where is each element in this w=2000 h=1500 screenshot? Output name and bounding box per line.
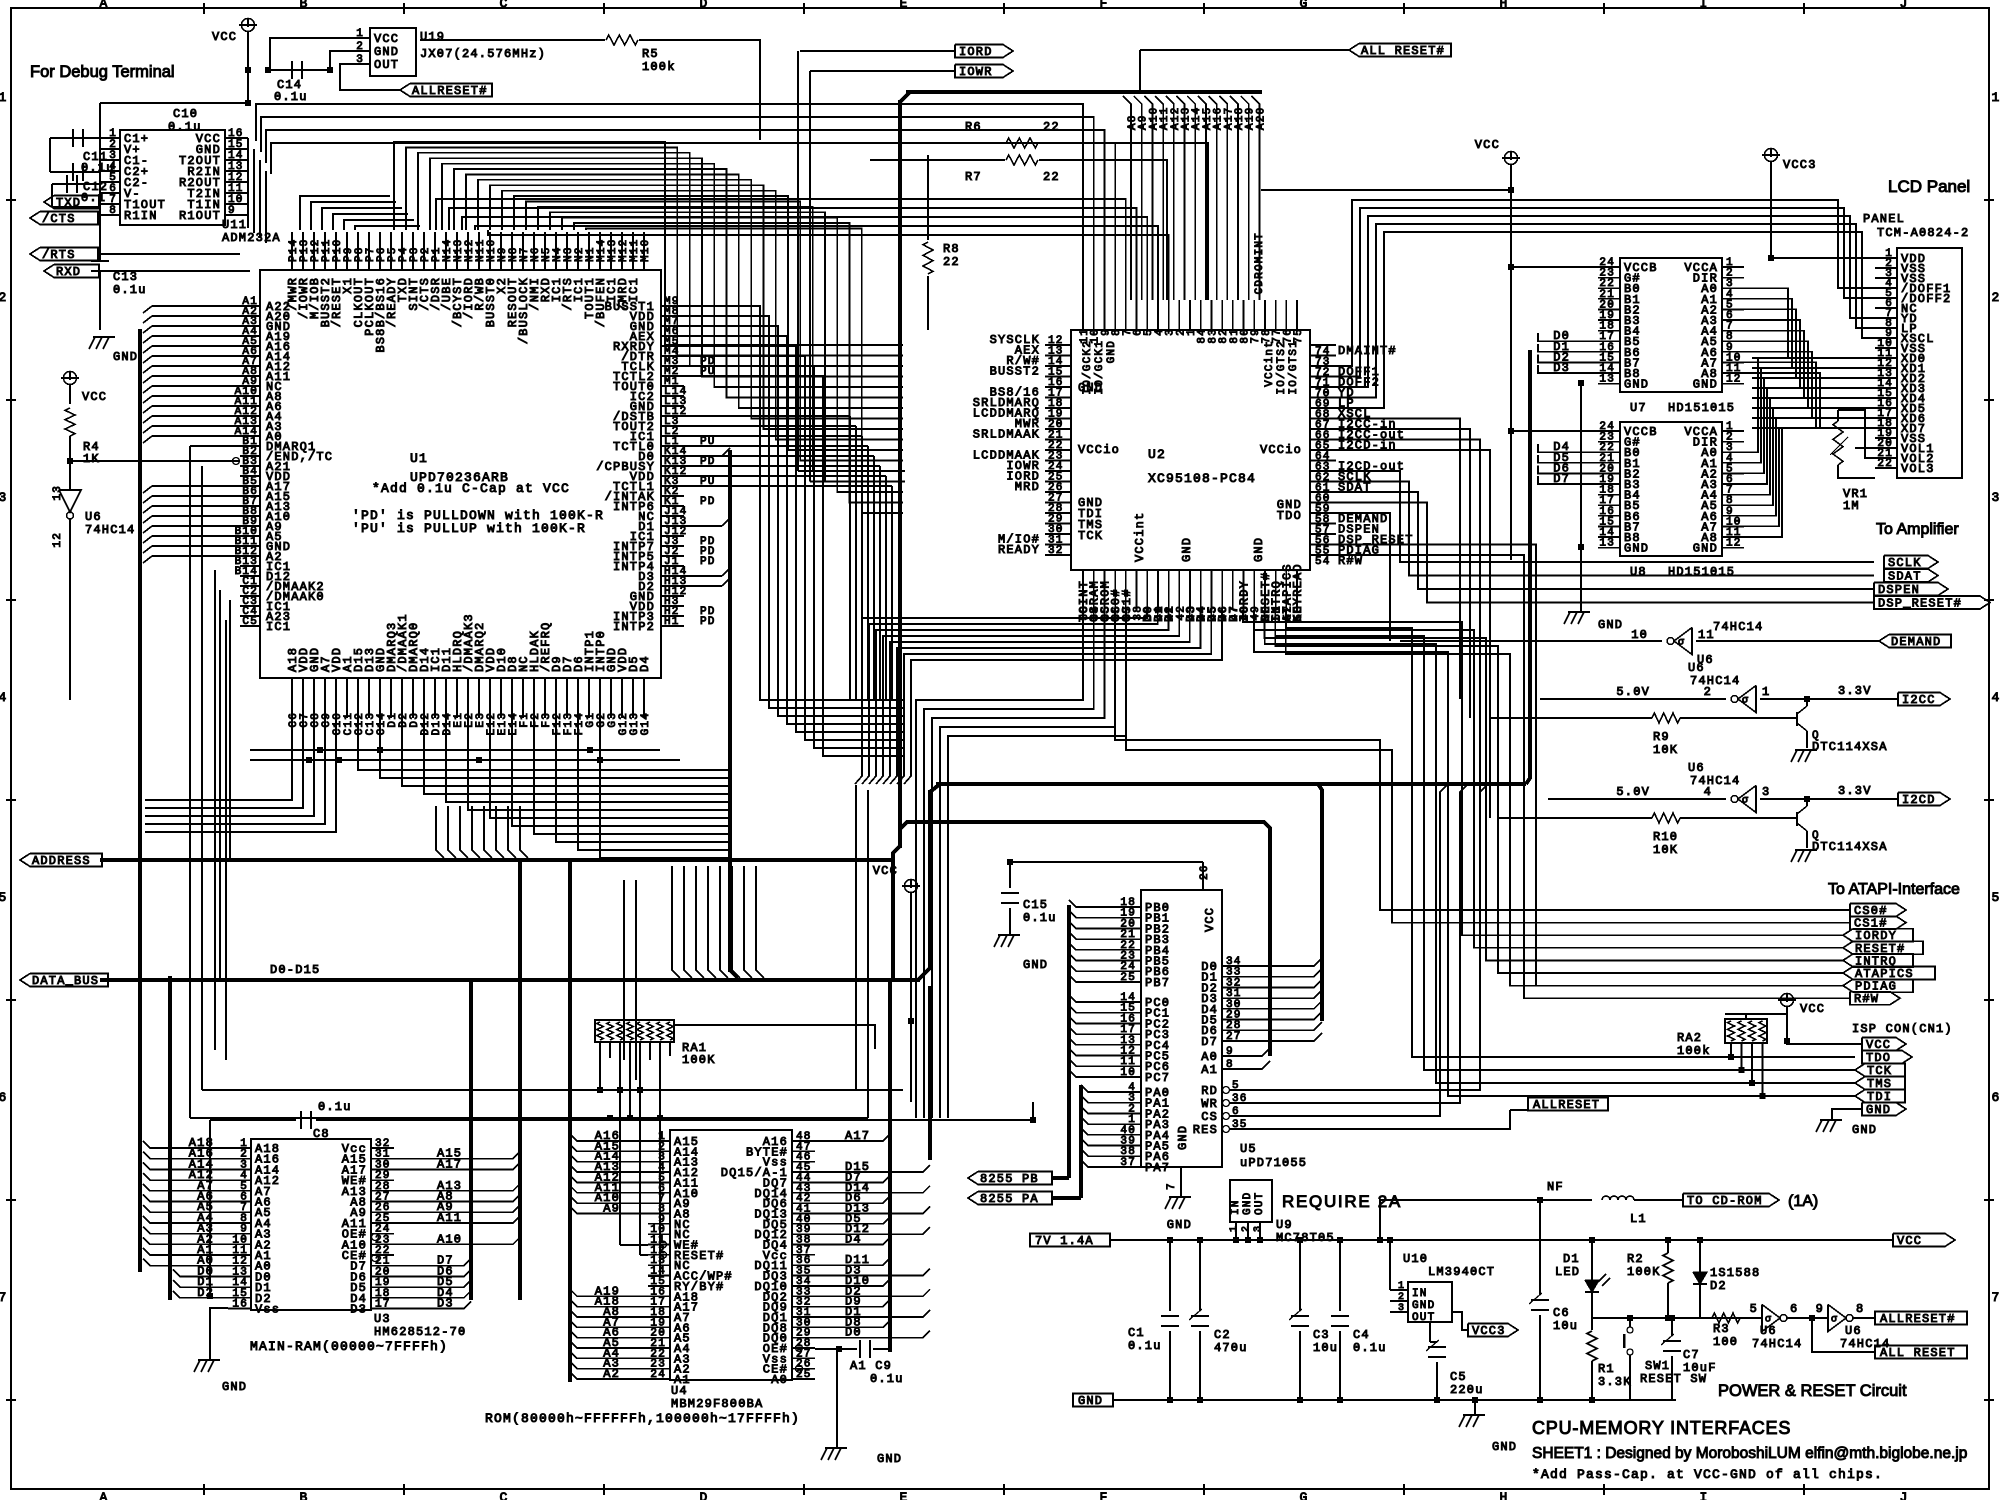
svg-text:PC7: PC7: [1145, 1071, 1170, 1085]
flag DEMAND: [1879, 635, 1951, 648]
inverter U6 74HC14 left: [59, 490, 81, 512]
wire reset node: [1592, 1317, 1700, 1319]
svg-text:C3: C3: [1313, 1328, 1330, 1342]
capacitor C8: [210, 1119, 296, 1121]
power VCC R4: [64, 372, 77, 385]
svg-text:4: 4: [0, 690, 8, 705]
svg-text:C1: C1: [1128, 1326, 1145, 1340]
power VCC U5 area: [905, 880, 918, 893]
svg-text:74HC14: 74HC14: [1690, 674, 1740, 688]
U2 bottom pins: [1082, 570, 1084, 610]
svg-text:1: 1: [1991, 90, 2000, 105]
svg-text:9: 9: [1226, 1046, 1234, 1058]
svg-text:VCC3: VCC3: [1783, 158, 1817, 172]
svg-text:IO/GTS2: IO/GTS2: [1276, 340, 1288, 395]
svg-text:H: H: [1499, 0, 1508, 11]
svg-text:ALL RESET: ALL RESET: [1880, 1346, 1956, 1360]
svg-text:470u: 470u: [1214, 1341, 1248, 1355]
svg-text:TDO: TDO: [1277, 509, 1302, 523]
wire U19 vcc: [270, 38, 348, 70]
svg-text:VCC: VCC: [873, 864, 898, 878]
bus vertical x890 ROM data: [888, 982, 892, 1352]
svg-text:C15: C15: [1023, 898, 1048, 912]
wire ATAPI: [1843, 929, 1913, 942]
svg-text:HD151015: HD151015: [1668, 565, 1735, 579]
svg-text:13: 13: [1599, 374, 1615, 386]
svg-text:2: 2: [1241, 1226, 1252, 1232]
svg-text:C5: C5: [242, 616, 258, 628]
svg-text:2: 2: [1991, 290, 2000, 305]
svg-text:5: 5: [0, 890, 8, 905]
svg-text:3: 3: [1398, 1303, 1404, 1314]
flag RXD: [44, 265, 99, 278]
svg-text:36: 36: [1232, 1093, 1248, 1105]
svg-text:uPD71055: uPD71055: [1240, 1156, 1307, 1170]
svg-text:VCC: VCC: [212, 30, 237, 44]
flag ADDRESS: [20, 854, 102, 867]
bus ADDRESS top horizontal to U2: [906, 90, 1262, 94]
svg-text:U6: U6: [1760, 1324, 1777, 1338]
svg-text:3: 3: [1762, 785, 1770, 799]
svg-text:E: E: [899, 1490, 908, 1500]
svg-text:GND: GND: [1176, 1125, 1190, 1150]
transistor Q DTC114XSA I2CD: [1806, 799, 1808, 806]
svg-text:5: 5: [1232, 1080, 1240, 1092]
svg-text:1: 1: [356, 28, 364, 40]
svg-text:5: 5: [1750, 1302, 1758, 1316]
capacitor C15: [1009, 862, 1011, 888]
svg-text:BUSST2: BUSST2: [990, 365, 1040, 379]
svg-text:VOL3: VOL3: [1901, 462, 1935, 476]
flag ALLRESET#: [400, 84, 492, 97]
svg-text:Vss: Vss: [255, 1303, 280, 1317]
svg-text:DSPEN: DSPEN: [1878, 583, 1920, 597]
svg-text:R1OUT: R1OUT: [179, 209, 221, 223]
flag /RTS: [30, 248, 98, 261]
bus jog x900 to x893: [893, 846, 900, 980]
svg-text:F: F: [1099, 1490, 1108, 1500]
svg-text:32: 32: [1048, 545, 1064, 557]
wire ATAPI: [1850, 916, 1906, 929]
svg-text:C2: C2: [1214, 1328, 1231, 1342]
wire debug to U1: [247, 138, 249, 228]
wire bundle U1 top short: [300, 196, 390, 230]
svg-text:I: I: [1699, 1490, 1708, 1500]
svg-text:σ: σ: [1678, 638, 1684, 649]
capacitor C5 220u: [1429, 1322, 1431, 1342]
svg-text:1K: 1K: [83, 452, 100, 466]
svg-text:REQUIRE 2A: REQUIRE 2A: [1282, 1192, 1402, 1211]
svg-text:8: 8: [109, 205, 117, 217]
svg-text:PD: PD: [700, 556, 716, 568]
svg-text:READY: READY: [998, 543, 1040, 557]
wires RA2 to ISP: [1730, 1043, 1732, 1057]
wire bundle U1/U11 to U2 top pins: [256, 104, 1083, 300]
svg-text:9: 9: [1816, 1302, 1824, 1316]
svg-text:σ: σ: [1742, 696, 1748, 707]
svg-text:22: 22: [1877, 458, 1893, 470]
power VCC3: [1765, 149, 1778, 162]
svg-text:To Amplifier: To Amplifier: [1876, 521, 1959, 538]
svg-text:75: 75: [1293, 328, 1305, 344]
svg-text:SHEET1 : Designed by Moroboshi: SHEET1 : Designed by MoroboshiLUM elfin@…: [1532, 1445, 1967, 1462]
svg-text:VCCint: VCCint: [1264, 340, 1276, 387]
svg-text:10u: 10u: [1313, 1341, 1338, 1355]
U5 left pins PC: [1119, 1001, 1141, 1003]
svg-text:VCC: VCC: [374, 32, 399, 46]
svg-text:PD: PD: [700, 496, 716, 508]
wire DMARQ1 row: [190, 445, 240, 447]
bus DATA vertical x1530 up to LCD data: [1526, 350, 1530, 784]
svg-text:/CTS: /CTS: [42, 212, 76, 226]
U2 right pins: [1310, 344, 1336, 346]
svg-text:0.1u: 0.1u: [318, 1100, 352, 1114]
svg-text:U5: U5: [1240, 1142, 1257, 1156]
wire inverter down: [69, 519, 71, 700]
oscillator U19 JX07: [370, 28, 416, 76]
svg-text:GND: GND: [1078, 1394, 1103, 1408]
svg-text:3.3K: 3.3K: [1598, 1375, 1632, 1389]
svg-text:1: 1: [1398, 1281, 1404, 1292]
svg-text:WR: WR: [1201, 1097, 1218, 1111]
svg-text:MAIN-RAM(00000~7FFFFh): MAIN-RAM(00000~7FFFFh): [250, 1339, 448, 1354]
svg-text:GND: GND: [1852, 1123, 1877, 1137]
flag I2CD: [1898, 793, 1950, 806]
svg-text:R1IN: R1IN: [124, 209, 158, 223]
capacitor C4 0.1u: [1339, 1240, 1341, 1311]
svg-text:16: 16: [232, 1299, 248, 1311]
svg-text:1: 1: [1762, 685, 1770, 699]
wire U1 bottom leftgoing: [145, 718, 292, 800]
svg-text:U6: U6: [1845, 1324, 1862, 1338]
wire C8 rail junction: [1030, 1117, 1036, 1123]
wire ATAPI: [1843, 967, 1935, 980]
capacitor C2 470u: [1199, 1240, 1201, 1311]
wire ATAPI: [1843, 979, 1913, 992]
ground left: [89, 337, 95, 349]
flag VCC right: [1893, 1234, 1955, 1247]
svg-text:R#W: R#W: [1854, 992, 1879, 1006]
svg-text:CPU-MEMORY INTERFACES: CPU-MEMORY INTERFACES: [1532, 1418, 1791, 1438]
flag TXD: [44, 196, 99, 209]
svg-text:35: 35: [1232, 1119, 1248, 1131]
rail VCC 7V: [1110, 1239, 1893, 1241]
RAM U3 HM628512-70: [251, 1139, 371, 1310]
svg-text:IN: IN: [1412, 1288, 1428, 1300]
svg-text:0.1u: 0.1u: [81, 161, 115, 175]
wire IORD drop: [797, 51, 799, 471]
svg-text:H1: H1: [664, 616, 680, 628]
svg-text:100k: 100k: [1677, 1044, 1711, 1058]
svg-text:RXD: RXD: [56, 265, 81, 279]
svg-text:LM3940CT: LM3940CT: [1428, 1265, 1495, 1279]
svg-text:R2: R2: [1627, 1252, 1644, 1266]
svg-text:ALLRESET#: ALLRESET#: [1880, 1312, 1956, 1326]
regulator U9 MC78T05: [1230, 1180, 1272, 1222]
resistor R10 10K: [1498, 817, 1652, 819]
wire VCC3 to panel: [1771, 257, 1875, 259]
svg-text:GND: GND: [1693, 542, 1718, 556]
svg-text:IOWR: IOWR: [959, 65, 993, 79]
svg-text:2: 2: [1704, 685, 1712, 699]
wire I2C from U2: [1336, 419, 1460, 700]
power VCC ISP: [1781, 994, 1794, 1007]
wire ISP gnd: [1832, 1109, 1862, 1120]
svg-text:M10: M10: [640, 239, 652, 262]
svg-text:10u: 10u: [1553, 1319, 1578, 1333]
svg-text:/RTS: /RTS: [42, 248, 76, 262]
svg-text:RES: RES: [1193, 1123, 1218, 1137]
wire U1 right to data bus x730: [684, 455, 722, 457]
wire NF rail: [1380, 1200, 1592, 1240]
wire U2 bottom D0-D7 to data bus: [855, 610, 1147, 784]
svg-text:GND: GND: [1106, 340, 1118, 363]
switch SW1 RESET: [1627, 1327, 1633, 1333]
svg-text:U6: U6: [85, 510, 102, 524]
svg-text:RD: RD: [1201, 1084, 1218, 1098]
svg-text:TCK: TCK: [1078, 529, 1103, 543]
ATAPI flags: [1850, 904, 1906, 917]
svg-text:10K: 10K: [1653, 843, 1678, 857]
svg-text:PANEL: PANEL: [1863, 212, 1905, 226]
svg-text:U4: U4: [671, 1384, 688, 1398]
svg-text:27: 27: [1226, 1031, 1242, 1043]
wire demand from U2: [1336, 513, 1390, 641]
svg-text:7: 7: [0, 1290, 8, 1305]
flag ALL RESET# top: [1140, 49, 1349, 51]
svg-text:100: 100: [1713, 1335, 1738, 1349]
wire rails above ROM: [202, 1089, 903, 1091]
svg-text:74HC14: 74HC14: [1690, 774, 1740, 788]
svg-text:C6: C6: [1553, 1306, 1570, 1320]
svg-text:For Debug Terminal: For Debug Terminal: [30, 63, 175, 81]
flag DATA_BUS: [20, 974, 108, 987]
svg-text:8255 PA: 8255 PA: [980, 1192, 1039, 1206]
svg-text:GND: GND: [1866, 1103, 1891, 1117]
svg-text:2: 2: [1398, 1292, 1404, 1303]
svg-text:GND: GND: [877, 1452, 902, 1466]
capacitor C11: [50, 137, 100, 139]
svg-text:17: 17: [375, 1299, 391, 1311]
svg-text:*Add 0.1u C-Cap at VCC: *Add 0.1u C-Cap at VCC: [372, 481, 570, 496]
svg-text:A20: A20: [1255, 107, 1267, 130]
svg-text:0.1u: 0.1u: [1128, 1339, 1162, 1353]
svg-text:G: G: [1299, 0, 1308, 11]
svg-text:R6: R6: [965, 120, 982, 134]
U5 left pins PA: [1119, 1091, 1141, 1093]
wire ATAPI: [1843, 954, 1913, 967]
svg-text:H: H: [1499, 1490, 1508, 1500]
bus DATA horizontal: [100, 978, 920, 982]
svg-text:R5: R5: [642, 47, 659, 61]
LCD driver U8 HD151015: [1620, 422, 1722, 556]
svg-text:POWER & RESET Circuit: POWER & RESET Circuit: [1718, 1382, 1907, 1400]
svg-text:C8: C8: [313, 1127, 330, 1141]
svg-text:GND: GND: [1598, 618, 1623, 632]
svg-text:2: 2: [0, 290, 8, 305]
bus vertical x520 from ADDRESS to RAM: [518, 862, 522, 1300]
flag VCC3 out: [1452, 1312, 1468, 1330]
bus vertical x570 from ADDRESS to ROM: [568, 862, 572, 1382]
svg-text:U1: U1: [410, 451, 428, 466]
svg-text:J: J: [1899, 0, 1908, 11]
svg-text:PA7: PA7: [1145, 1161, 1170, 1175]
U1 left pin wires to bus: [152, 305, 240, 307]
amplifier flags: [1884, 556, 1938, 569]
svg-text:INTP2: INTP2: [613, 620, 655, 634]
wire U2 to LCD control bundle: [1336, 200, 1875, 366]
flag I2CC: [1898, 693, 1950, 706]
wire U8 outputs staircase: [1744, 358, 1758, 452]
svg-text:GND: GND: [1492, 1440, 1517, 1454]
wire U7 outputs staircase: [1744, 288, 1788, 358]
capacitor C13: [100, 102, 248, 104]
svg-text:OUT: OUT: [374, 58, 399, 72]
svg-text:VCC: VCC: [1800, 1002, 1825, 1016]
svg-text:ADM232A: ADM232A: [222, 231, 281, 245]
svg-text:A: A: [99, 0, 108, 11]
svg-text:37: 37: [1120, 1157, 1136, 1169]
rail GND bottom: [1073, 1394, 1113, 1407]
svg-text:R8: R8: [943, 242, 960, 256]
svg-text:25: 25: [796, 1369, 812, 1381]
svg-text:KEYREAD: KEYREAD: [1291, 563, 1305, 622]
svg-text:GND: GND: [1693, 378, 1718, 392]
svg-text:TO CD-ROM: TO CD-ROM: [1687, 1194, 1763, 1208]
svg-text:U7: U7: [1630, 401, 1647, 415]
svg-text:12: 12: [1726, 538, 1742, 550]
wire panel XD lines: [1752, 357, 1875, 359]
wire ATAPI: [1843, 941, 1923, 954]
svg-text:A0: A0: [771, 1373, 788, 1387]
svg-text:VCCio: VCCio: [1078, 443, 1120, 457]
wire U2 bottom to ISP: [1286, 610, 1855, 1057]
svg-text:5.0V: 5.0V: [1616, 785, 1650, 799]
bus ADDRESS top corner: [900, 92, 910, 102]
svg-text:GND: GND: [1412, 1300, 1435, 1312]
svg-text:0.1u: 0.1u: [1023, 911, 1057, 925]
svg-text:HM628512-70: HM628512-70: [374, 1325, 466, 1339]
svg-text:A1: A1: [1201, 1063, 1218, 1077]
flag ALLRESET mid: [1528, 1098, 1608, 1111]
svg-text:1: 1: [0, 90, 8, 105]
svg-text:10K: 10K: [1653, 743, 1678, 757]
svg-text:10: 10: [1631, 628, 1648, 642]
resistor R9 10K: [1490, 717, 1652, 719]
power VCC top: [242, 19, 255, 32]
svg-text:PB7: PB7: [1145, 976, 1170, 990]
svg-text:6: 6: [1790, 1302, 1798, 1316]
svg-text:1: 1: [1229, 1226, 1240, 1232]
resistor R1 3.3K: [1587, 1331, 1597, 1361]
svg-text:A: A: [99, 1490, 108, 1500]
svg-text:VCC: VCC: [1475, 138, 1500, 152]
flag 8255 PB: [968, 1172, 1052, 1185]
svg-text:74HC14: 74HC14: [1713, 620, 1763, 634]
resistor R8 22: [927, 155, 929, 240]
resistor R7 22: [870, 159, 1005, 161]
svg-text:8255 PB: 8255 PB: [980, 1172, 1039, 1186]
svg-text:SCLK: SCLK: [1888, 556, 1922, 570]
resistor R5 100k: [420, 39, 605, 41]
svg-text:74HC14: 74HC14: [85, 523, 135, 537]
svg-text:G: G: [1299, 1490, 1308, 1500]
bus entries A8-A20 to U2 top: [1123, 96, 1131, 300]
wire U1 bottom rails: [250, 749, 660, 751]
capacitor C7 10uF: [1671, 1318, 1673, 1336]
wire U2 bottom CS left-down: [916, 610, 1083, 1118]
svg-text:PD: PD: [700, 616, 716, 628]
wire to amplifier flag: [1336, 503, 1874, 603]
svg-text:HD151015: HD151015: [1668, 401, 1735, 415]
svg-text:VCCint: VCCint: [1133, 512, 1147, 562]
svg-text:ALLRESET#: ALLRESET#: [412, 84, 488, 98]
svg-text:D7: D7: [1201, 1035, 1218, 1049]
svg-text:GND: GND: [113, 350, 138, 364]
capacitor C14: [268, 69, 330, 71]
svg-text:0.1u: 0.1u: [870, 1372, 904, 1386]
resistor R6 22: [858, 142, 1005, 144]
svg-text:IORD: IORD: [959, 45, 993, 59]
svg-text:IO/GCK1: IO/GCK1: [1094, 340, 1106, 395]
svg-text:3: 3: [356, 54, 364, 66]
bus vertical x930 ROM data2: [928, 986, 932, 1160]
bus D0-D15 from U1 x730: [728, 450, 732, 972]
svg-text:J: J: [1899, 1490, 1908, 1500]
wire R#W to ATAPI: [1336, 555, 1850, 998]
svg-text:6: 6: [0, 1090, 8, 1105]
svg-text:10uF: 10uF: [1683, 1361, 1717, 1375]
svg-text:GND: GND: [1167, 1218, 1192, 1232]
parallel I/O U5 uPD71055: [1141, 890, 1222, 1167]
flag IOWR: [810, 70, 955, 72]
capacitor C3 10u: [1299, 1240, 1301, 1311]
svg-text:2: 2: [356, 41, 364, 53]
svg-text:26: 26: [1199, 864, 1211, 880]
svg-text:VCC3: VCC3: [1472, 1324, 1506, 1338]
svg-text:13: 13: [52, 485, 64, 501]
svg-text:R3: R3: [1713, 1322, 1730, 1336]
svg-text:D: D: [699, 0, 708, 11]
svg-text:U6: U6: [1688, 661, 1705, 675]
wire ATAPI: [1850, 992, 1900, 1005]
svg-text:R10: R10: [1653, 830, 1678, 844]
svg-text:G14: G14: [640, 712, 652, 735]
svg-text:3.3V: 3.3V: [1838, 784, 1872, 798]
svg-text:CDROMINT: CDROMINT: [1254, 232, 1266, 294]
diode D2 1S1588: [1699, 1240, 1701, 1272]
svg-text:3: 3: [1253, 1226, 1264, 1232]
wire ISP vcc: [1787, 1041, 1862, 1044]
svg-text:MC78T05: MC78T05: [1276, 1231, 1335, 1245]
wire U19 out: [340, 64, 400, 90]
svg-text:10: 10: [1120, 1067, 1136, 1079]
bus ADDRESS horizontal: [100, 858, 893, 862]
bus DATA horizontal y784: [936, 782, 1526, 786]
wire PDIAG to ATAPI: [1336, 545, 1843, 986]
flag 7V 1.4A: [1030, 1234, 1110, 1247]
svg-text:OUT: OUT: [1412, 1312, 1435, 1324]
svg-text:DATA_BUS: DATA_BUS: [32, 974, 99, 988]
svg-text:B: B: [299, 0, 308, 11]
svg-text:IC1: IC1: [627, 277, 641, 302]
flag /CTS: [30, 212, 98, 225]
svg-text:C4: C4: [1353, 1328, 1370, 1342]
svg-text:VCCio: VCCio: [1260, 443, 1302, 457]
svg-text:D4: D4: [638, 655, 652, 672]
svg-text:22: 22: [1043, 120, 1060, 134]
U5 left pins PB: [1119, 906, 1141, 908]
